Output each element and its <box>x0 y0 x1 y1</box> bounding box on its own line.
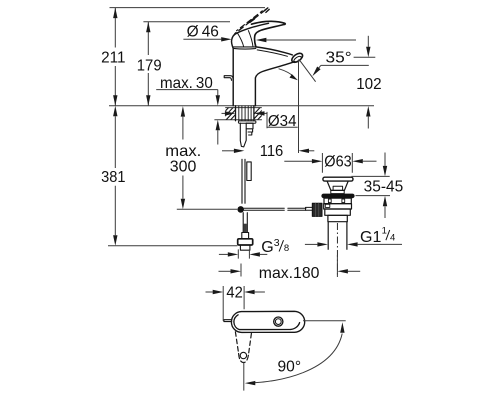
max.180 dimension left arrow <box>219 270 231 272</box>
G1 1/4 right arrow with underline <box>358 243 402 245</box>
G1 1/4 left arrow <box>305 243 318 245</box>
svg-text:Ø 46: Ø 46 <box>187 24 219 41</box>
water jet axis line <box>299 60 315 82</box>
90deg arc top arrowhead <box>340 322 344 333</box>
handle inner contour <box>234 315 300 330</box>
waste body block 3 <box>325 209 351 215</box>
90deg arc <box>250 334 342 383</box>
90deg horizontal reference line <box>303 320 346 322</box>
mounting washer <box>238 121 256 123</box>
handle screw hole <box>274 317 283 326</box>
G3/8 left arrow <box>219 253 228 255</box>
dia46 arrow left-pointing with tail <box>266 39 356 41</box>
G3/8 right arrow <box>260 253 268 255</box>
dimension 42 ticks <box>223 286 244 321</box>
35-45 top extension line <box>352 175 390 177</box>
90deg vertical reference line <box>243 363 245 391</box>
max.30 dimension line upper <box>217 90 219 96</box>
dia34 label box <box>267 112 298 128</box>
handle rear knob tab <box>224 320 232 322</box>
dimension 381 line <box>114 116 116 235</box>
waste neck <box>328 215 347 221</box>
pull rod below <box>242 159 245 203</box>
rod adjuster stub <box>306 207 313 210</box>
pull rod knob tab at rear <box>224 76 233 81</box>
svg-text:42: 42 <box>226 285 242 302</box>
faucet body left edge and dome <box>232 33 237 106</box>
35-45 dimension line lower <box>384 206 386 218</box>
max.30 leader underline <box>156 89 218 91</box>
FAUCET SIDE VIEW <box>224 8 322 250</box>
svg-text:G: G <box>261 239 273 256</box>
second hose segment <box>247 162 251 181</box>
35deg underline <box>321 64 369 66</box>
mounting nut steps <box>246 123 253 135</box>
svg-text:max.180: max.180 <box>259 265 320 282</box>
G3/8 extension ticks <box>238 249 249 258</box>
svg-text:3: 3 <box>274 237 280 249</box>
DIMENSIONS RIGHT <box>219 153 404 283</box>
35-45 bottom extension line <box>356 195 391 197</box>
dome inner arcs <box>238 31 254 47</box>
lever blade top arch tip and underside with neck front <box>252 21 286 47</box>
waste tapered body <box>327 181 348 190</box>
counter slab hatching <box>216 106 248 121</box>
svg-text:300: 300 <box>170 158 197 175</box>
tailpipe centerline <box>336 223 338 277</box>
hose nut block <box>242 233 249 239</box>
90deg text <box>275 359 303 376</box>
extension line top (raised lever tip level) <box>110 7 266 9</box>
aerator <box>290 52 304 65</box>
dimension 381 arrows <box>113 106 117 246</box>
svg-text:Ø34: Ø34 <box>268 113 297 130</box>
G1 1/4 text <box>360 226 395 246</box>
dia63 extension bars <box>322 153 352 173</box>
waste top flange <box>323 177 353 181</box>
dome base seam lines <box>233 47 255 49</box>
svg-text:102: 102 <box>356 76 381 93</box>
dimension 102 line lower <box>367 117 369 129</box>
spout bottom edge and body right edge <box>255 62 294 106</box>
counter slab top line <box>225 107 262 109</box>
svg-text:381: 381 <box>101 169 125 186</box>
dimension 42 right arrow <box>255 291 265 293</box>
waste body tab <box>325 204 330 207</box>
rod level extension line (max.300 end) <box>177 208 237 210</box>
waste body block 1 <box>324 198 351 203</box>
waste stem knob <box>331 186 344 193</box>
dimension 102 line upper <box>367 36 369 47</box>
raised lever tip <box>264 8 269 12</box>
counter slab bottom line <box>214 119 261 121</box>
svg-text:116: 116 <box>260 143 284 160</box>
swivel arc under spout <box>279 69 295 78</box>
handle rotated 90 bottom cap <box>239 354 249 363</box>
G3/8 fitting nut <box>238 239 253 245</box>
G3/8 thread tip <box>240 245 250 250</box>
dia34 arrow right-pointing <box>222 112 226 114</box>
dimension max.300 arrows <box>181 106 185 209</box>
dia46 leader underline <box>183 38 221 40</box>
threaded shank below counter <box>236 106 254 121</box>
waste body block 2 <box>324 204 352 209</box>
dia34 arrow left-pointing with tail <box>264 112 267 114</box>
handle outline horizontal position <box>231 311 304 332</box>
DIMENSIONS BOTTOM <box>206 285 346 391</box>
lower hose to G3/8 <box>243 213 247 233</box>
svg-text:G1: G1 <box>360 229 381 246</box>
35-45 arrows <box>383 166 387 206</box>
svg-text:4: 4 <box>390 233 395 244</box>
svg-text:Ø63: Ø63 <box>324 154 351 171</box>
max.30 arrow down <box>216 95 220 106</box>
svg-text:8: 8 <box>284 243 289 254</box>
G1 1/4 fraction slash <box>386 230 390 240</box>
max.30 arrow up below slab <box>217 130 219 144</box>
svg-text:90°: 90° <box>278 359 302 376</box>
max.180 extension ticks <box>241 255 337 277</box>
90deg arc bottom arrowhead <box>245 381 256 385</box>
handle rotated 90 dashed left side <box>235 332 238 354</box>
handle rotated 90 dashed right side <box>249 334 252 354</box>
bottom reference line (381 end) <box>108 245 237 247</box>
dimension 179 arrows <box>146 22 150 106</box>
dimension 179 line <box>147 22 149 106</box>
raised lever dashed upper line <box>255 10 266 19</box>
35-45 dimension line upper <box>384 153 386 166</box>
counter surface line <box>109 105 374 107</box>
dimension 42 left arrow <box>206 291 213 293</box>
G3/8 text <box>261 237 289 256</box>
waste tailpipe walls <box>328 222 347 250</box>
dimension 116 right arrow <box>309 150 315 152</box>
svg-text:35°: 35° <box>326 50 352 67</box>
dia63 right arrow <box>363 160 377 162</box>
102 top extension line <box>354 56 376 58</box>
horizontal pop-up rod <box>244 208 306 210</box>
POP-UP WASTE <box>321 177 354 277</box>
dimension 102 arrows <box>366 47 370 117</box>
aerator vertical reference line <box>298 60 300 154</box>
dimension 211 arrows <box>113 8 117 106</box>
dimension 211 line <box>114 8 116 106</box>
dimension max.300 line <box>182 117 184 199</box>
dia46 arrow right-pointing <box>221 37 232 41</box>
supply hose upper strip <box>240 123 246 147</box>
waste seal flange dark <box>321 194 354 199</box>
lever side edge <box>237 23 269 33</box>
HANDLE TOP VIEW <box>224 311 305 362</box>
svg-text:max.: max. <box>165 143 201 160</box>
spout inner line <box>257 50 287 56</box>
max.180 dimension right arrow <box>348 270 360 272</box>
raised lever dashed second edge <box>237 11 263 31</box>
waste body block1 marks <box>328 199 344 203</box>
knurled clamp <box>312 203 322 216</box>
svg-text:211: 211 <box>101 50 125 67</box>
handle rotated 90 hole <box>240 352 246 358</box>
svg-text:1: 1 <box>382 226 387 237</box>
G3/8 fraction slash <box>279 240 283 251</box>
svg-text:179: 179 <box>137 57 162 74</box>
DIMENSIONS MIDDLE <box>183 24 381 161</box>
dimension 116 left arrow <box>222 150 234 152</box>
pop-up pivot ball <box>237 206 244 213</box>
spout top edge <box>256 47 293 55</box>
svg-text:35-45: 35-45 <box>364 179 404 196</box>
dia63 left arrow <box>284 160 312 162</box>
extension line lever top level <box>143 21 230 23</box>
35deg leader line <box>315 65 321 72</box>
swivel arc arrowhead <box>290 74 298 80</box>
35deg leader arrowhead <box>312 67 320 77</box>
